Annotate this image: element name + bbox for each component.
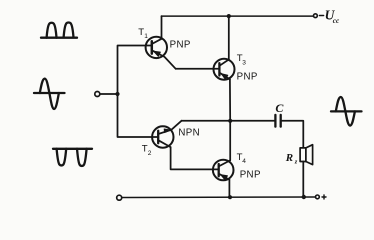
node speaker-bottom junction (302, 195, 306, 199)
wire output node to capacitor (230, 120, 274, 122)
label T4 (237, 152, 247, 165)
waveform input-mid (full sine cycle) (34, 79, 65, 109)
svg-text:4: 4 (242, 158, 246, 165)
svg-text:2: 2 (148, 150, 152, 157)
waveform input-bottom (two negative half-sine humps) (53, 149, 92, 166)
wire T2 collector to T4 base (171, 147, 219, 169)
label Rz (285, 152, 298, 166)
wire capacitor to speaker (281, 121, 304, 148)
svg-text:1: 1 (144, 33, 148, 40)
wire top junction to T3 collector (228, 16, 230, 59)
svg-text:z: z (294, 159, 298, 166)
label PNP of T3 (237, 71, 258, 82)
label + (322, 195, 326, 199)
label NPN of T2 (178, 127, 200, 138)
svg-text:cc: cc (333, 17, 340, 25)
wire T2 emitter to output node rail (182, 120, 231, 122)
svg-text:R: R (285, 152, 293, 164)
node output junction (228, 119, 232, 123)
input terminal (95, 92, 100, 97)
label T2 (142, 144, 152, 158)
label T3 (237, 53, 246, 67)
svg-text:PNP: PNP (240, 170, 261, 181)
wire T3 emitter to output node (229, 79, 231, 121)
wire junction to T1 base (118, 46, 152, 95)
svg-text:PNP: PNP (237, 71, 258, 82)
wire output junction down to T4 collector (229, 121, 231, 161)
terminal -Ucc (314, 14, 318, 18)
wire T4 emitter to bottom rail (228, 180, 230, 198)
label PNP of T4 (240, 170, 261, 181)
node top-rail junction (227, 14, 231, 18)
wire junction to T2 base (118, 94, 159, 137)
transistor T3 (214, 59, 235, 80)
waveform input-top (two positive half-sine humps) (41, 22, 77, 37)
transistor T1 (146, 37, 176, 69)
svg-text:PNP: PNP (170, 39, 191, 50)
speaker Rz (300, 145, 313, 165)
capacitor C (275, 115, 280, 127)
svg-text:NPN: NPN (178, 127, 200, 138)
node input junction (115, 92, 119, 96)
label -Ucc (319, 7, 340, 25)
svg-text:T: T (142, 144, 148, 155)
wire T1 emitter to T3 base (176, 68, 220, 70)
svg-text:C: C (275, 101, 284, 115)
wire bottom rail (122, 196, 316, 199)
wire input to junction (100, 93, 118, 95)
terminal bottom-right (316, 195, 320, 199)
wire T1 collector to top rail (161, 16, 163, 39)
transistor T4 (213, 160, 234, 181)
svg-text:3: 3 (242, 60, 246, 67)
label PNP of T1 (170, 39, 191, 50)
label T1 (138, 27, 148, 40)
waveform output (sine at right) (331, 97, 362, 126)
node T4 emitter junction (228, 195, 232, 199)
wire top rail (162, 15, 314, 17)
label C (275, 101, 284, 115)
terminal bottom-left (117, 195, 122, 200)
wire speaker to bottom rail (302, 162, 304, 198)
transistor T2 (152, 121, 182, 148)
